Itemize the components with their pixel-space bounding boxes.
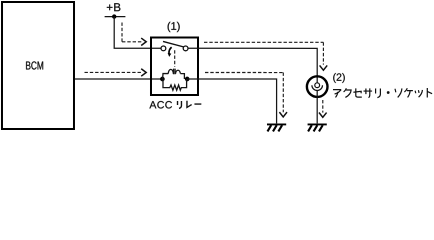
label accessory socket (kana) bbox=[333, 90, 341, 98]
socket cup arc bbox=[312, 85, 323, 90]
resistor in parallel with coil bbox=[163, 79, 187, 90]
+B label bbox=[107, 3, 121, 11]
label ACC relay (ACC + kana ri re bar) bbox=[149, 101, 172, 108]
dashed flow arrow: socket to ground bbox=[322, 100, 324, 113]
label (1) bbox=[168, 22, 180, 32]
wire relay switch output to socket bbox=[188, 48, 317, 83]
switch input wire inside relay bbox=[152, 47, 161, 49]
switch contact circle right bbox=[183, 46, 188, 51]
label (2) bbox=[333, 73, 345, 83]
dashed flow arrow: BCM into relay bbox=[84, 71, 141, 73]
switch contact circle left bbox=[161, 46, 166, 51]
relay U1 box bbox=[151, 37, 198, 95]
accessory socket outer circle bbox=[307, 76, 328, 97]
relay coil winding bbox=[163, 74, 169, 79]
wire BCM to relay coil bbox=[75, 78, 163, 80]
wire +B to relay switch input bbox=[114, 17, 151, 49]
dashed actuation link bbox=[174, 50, 176, 67]
BCM label bbox=[26, 61, 43, 69]
node: coil right junction dot bbox=[185, 77, 190, 82]
dashed flow arrow: relay to ground bbox=[205, 71, 283, 73]
switch arm bbox=[163, 41, 184, 47]
BCM box bbox=[2, 2, 74, 129]
+B supply bar bbox=[105, 16, 126, 18]
node: +B junction dot bbox=[112, 14, 116, 18]
switch actuation curved arrow bbox=[169, 47, 172, 53]
dashed flow arrow: relay to socket bbox=[204, 41, 323, 43]
wire socket to ground bbox=[316, 91, 318, 124]
ground (relay coil) bbox=[267, 123, 286, 125]
node: coil left junction dot bbox=[160, 77, 165, 82]
dashed flow arrow: +B into relay bbox=[121, 22, 123, 41]
wire relay coil to ground bbox=[187, 79, 276, 123]
socket inner contact circle bbox=[315, 83, 320, 88]
ground (socket) bbox=[308, 123, 327, 125]
